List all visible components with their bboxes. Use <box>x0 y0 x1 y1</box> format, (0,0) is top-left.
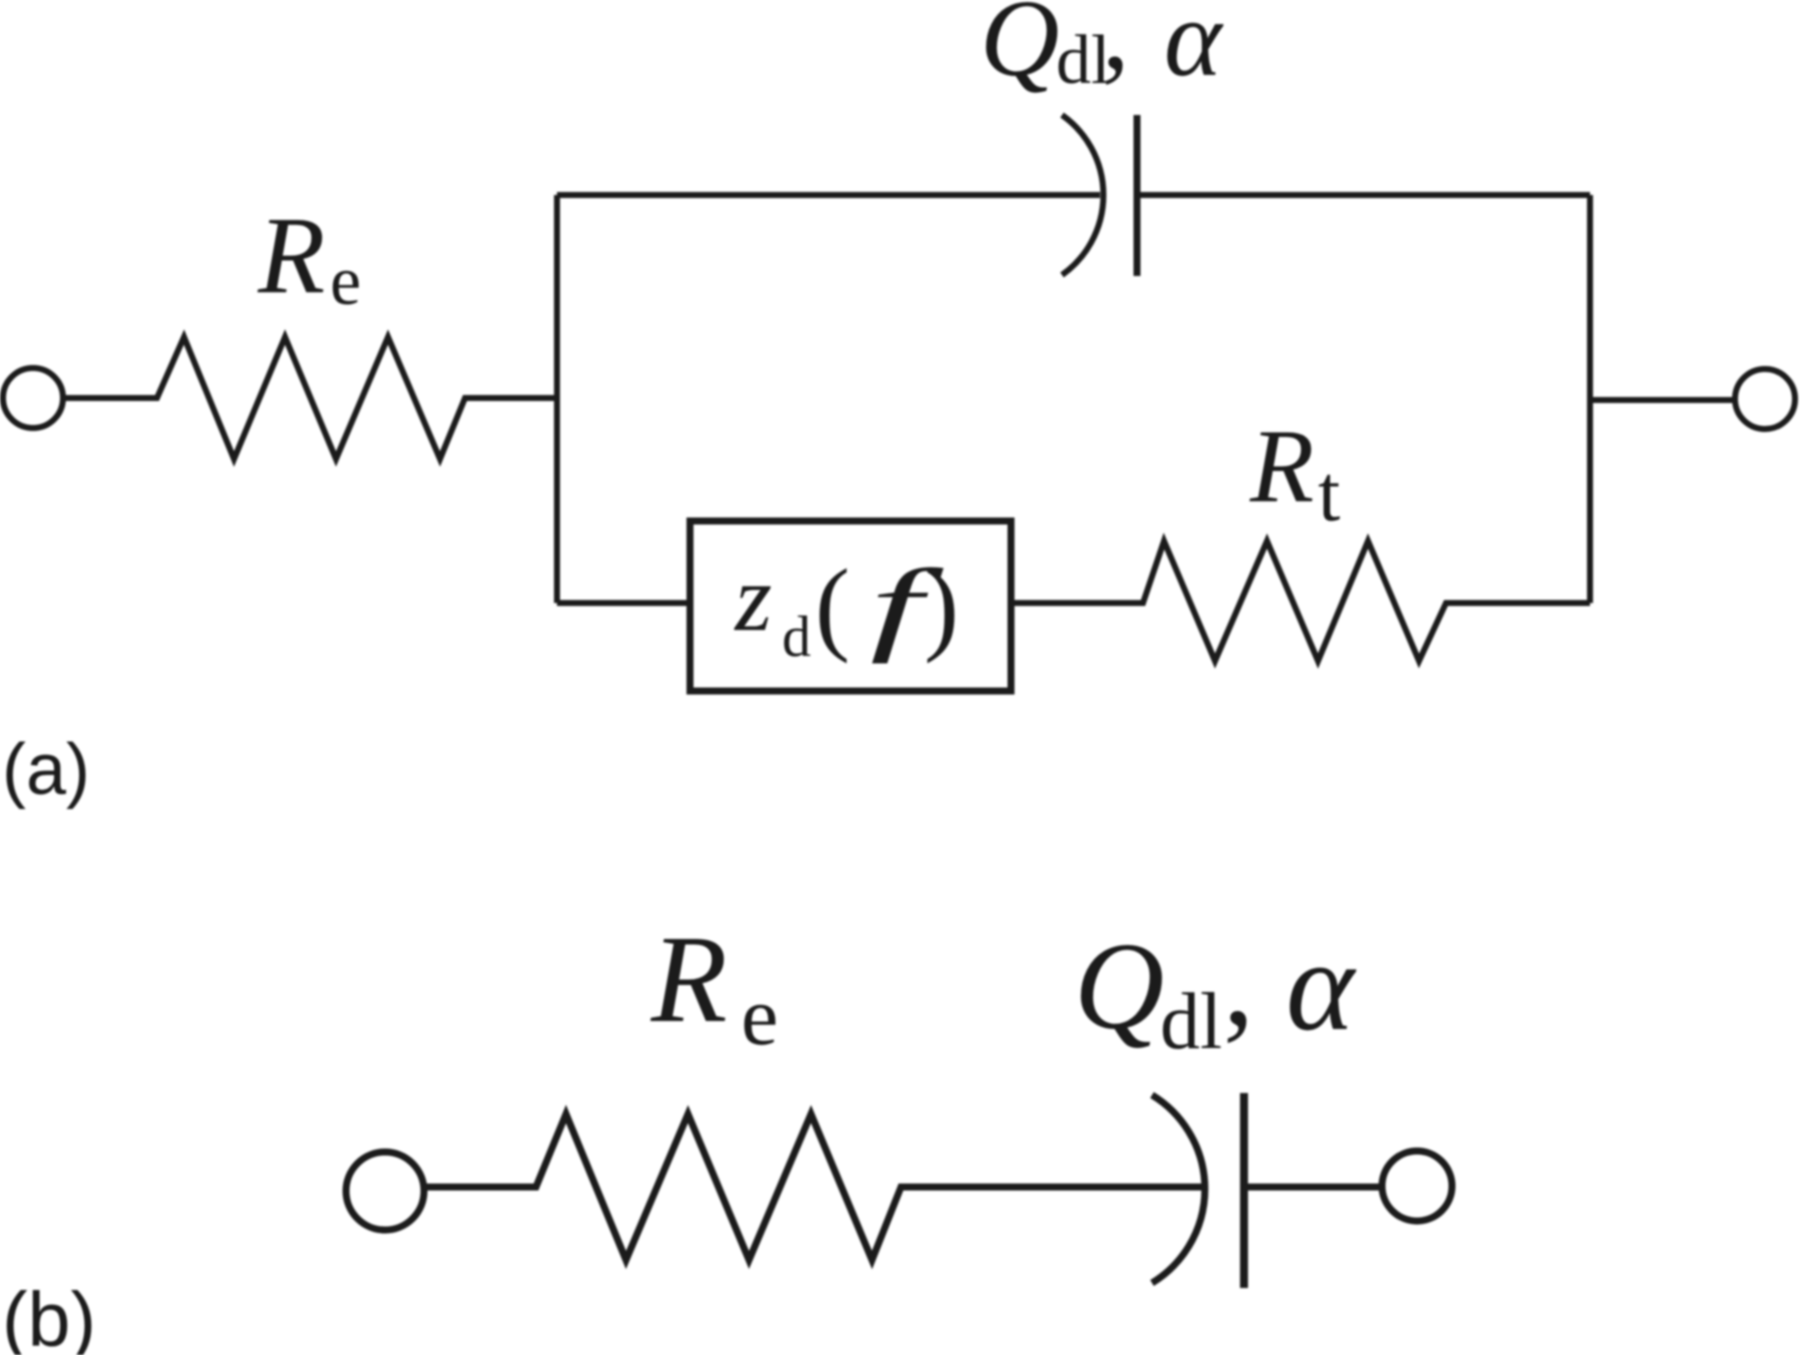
svg-text:α: α <box>1164 0 1224 99</box>
svg-text:): ) <box>924 547 959 664</box>
svg-text:α: α <box>1286 914 1357 1058</box>
svg-text:,: , <box>1223 914 1254 1052</box>
svg-text:R: R <box>257 194 325 316</box>
svg-text:R: R <box>1249 407 1314 524</box>
svg-text:z: z <box>733 545 772 651</box>
svg-text:d: d <box>782 604 811 669</box>
svg-text:R: R <box>650 911 727 1049</box>
svg-text:(: ( <box>815 547 850 664</box>
svg-text:(b): (b) <box>2 1277 96 1355</box>
svg-text:t: t <box>1318 450 1340 538</box>
svg-text:Q: Q <box>1074 918 1164 1056</box>
svg-text:(a): (a) <box>2 730 90 810</box>
svg-text:Q: Q <box>980 0 1059 99</box>
svg-text:e: e <box>330 243 361 320</box>
svg-text:dl: dl <box>1160 978 1222 1066</box>
svg-text:e: e <box>741 970 778 1063</box>
svg-text:,: , <box>1102 0 1130 92</box>
